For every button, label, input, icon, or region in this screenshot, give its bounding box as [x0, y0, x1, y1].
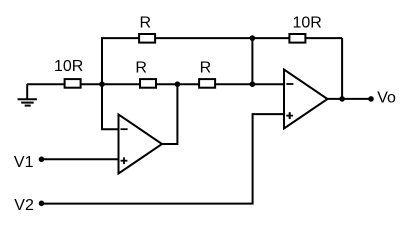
- svg-text:10R: 10R: [54, 58, 83, 75]
- wire node A to R3: [102, 83, 140, 85]
- op-amp U1: [119, 115, 163, 174]
- wire op-amp U1 output feedback up to node D: [162, 84, 177, 144]
- svg-text:R: R: [200, 59, 212, 76]
- resistor R top: [139, 34, 155, 43]
- wire R1 to node A: [81, 83, 102, 85]
- wire node A column (top wire corner down to op-amp inverting input): [102, 38, 139, 129]
- wire R3 to node D to R4: [156, 83, 199, 85]
- node D: [175, 81, 181, 87]
- wire 10R feedback from node B over R5 down to node E: [305, 37, 342, 39]
- wire R4 to node C: [215, 83, 252, 85]
- node B: [250, 35, 256, 41]
- wire node C to op-amp U2 inverting input: [252, 83, 284, 85]
- wire V2 terminal along bottom and up to op-amp U2 noninverting input: [42, 114, 285, 204]
- svg-text:R: R: [140, 14, 152, 31]
- resistor R middle-left: [140, 79, 156, 88]
- resistor 10R left: [65, 79, 81, 88]
- svg-text:R: R: [135, 59, 147, 76]
- op-amp U2: [284, 70, 328, 129]
- wire op-amp U2 output to Vo terminal: [327, 98, 371, 100]
- wire node B to 10R top-right: [252, 37, 290, 39]
- node A: [99, 81, 105, 87]
- wire V1 terminal to op-amp U1 noninverting input: [41, 158, 118, 160]
- svg-text:10R: 10R: [293, 15, 322, 32]
- terminal dot V2: [39, 201, 45, 207]
- terminal dot V1: [39, 157, 45, 163]
- node E: [339, 96, 345, 102]
- node C: [250, 81, 256, 87]
- wire node B to node C: [251, 38, 253, 84]
- terminal dot Vo: [368, 96, 374, 102]
- ground: [18, 84, 37, 105]
- svg-text:V1: V1: [14, 154, 34, 171]
- resistor R middle-right: [199, 79, 215, 88]
- svg-text:V2: V2: [14, 197, 34, 214]
- wire top R2 to node B: [155, 37, 252, 39]
- svg-text:Vo: Vo: [377, 90, 396, 107]
- resistor 10R top-right: [289, 34, 305, 43]
- wire ground to R1: [27, 83, 64, 85]
